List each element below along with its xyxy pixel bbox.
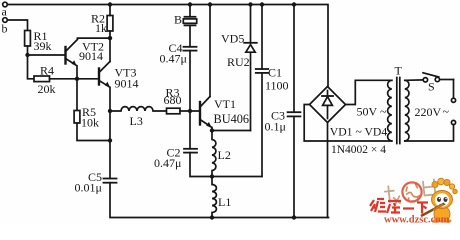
node VT1 emitter	[210, 128, 214, 132]
svg-text:0.01μ: 0.01μ	[75, 181, 102, 195]
capacitor C4	[184, 47, 197, 111]
wire R2 top	[109, 5, 111, 16]
svg-text:B: B	[174, 13, 182, 27]
node C1 top on bus	[260, 2, 264, 6]
svg-text:BU406: BU406	[214, 112, 250, 126]
wire bridge bottom to bus	[327, 123, 329, 218]
wire emitter node to VD5 line	[212, 130, 251, 132]
capacitor C5	[104, 179, 117, 183]
svg-text:RU2: RU2	[227, 55, 250, 69]
svg-text:1N4002 × 4: 1N4002 × 4	[331, 144, 386, 156]
terminal 220V top	[451, 98, 455, 102]
watermark magnifier circle	[402, 182, 421, 201]
wire bridge left vertex to secondary bottom	[304, 105, 392, 142]
watermark red brand text (drawn as shapes)	[370, 199, 428, 214]
node VT1 collector on bus	[208, 2, 212, 6]
svg-text:10k: 10k	[81, 116, 99, 130]
svg-text:R4: R4	[40, 64, 54, 78]
svg-text:50V ~: 50V ~	[357, 105, 387, 119]
svg-text:0.1μ: 0.1μ	[265, 120, 286, 134]
wire R5 bottom to C5 line	[77, 123, 110, 141]
switch S	[423, 73, 454, 82]
wire R4 to node Y	[50, 78, 78, 80]
svg-text:C1: C1	[268, 66, 282, 80]
node VT1 base/C4/C2	[188, 109, 192, 113]
inductor L1	[212, 177, 216, 218]
svg-text:VT1: VT1	[214, 97, 236, 111]
wire VD5 line vertical	[250, 52, 252, 130]
wire 220V bottom to primary	[405, 125, 454, 141]
wire bridge right vertex to secondary top	[346, 80, 392, 104]
resistor R1	[25, 31, 31, 47]
svg-text:L3: L3	[130, 114, 143, 128]
transformer core	[396, 78, 398, 144]
node L2/L1/C2/C1	[210, 174, 214, 178]
svg-text:L1: L1	[218, 195, 231, 209]
terminal b	[3, 18, 8, 23]
terminal a	[3, 2, 8, 7]
wire VT3 emitter down	[109, 87, 111, 178]
svg-text:b: b	[2, 22, 8, 36]
terminal 220V bottom	[451, 120, 455, 124]
svg-text:680: 680	[164, 93, 182, 107]
svg-text:9014: 9014	[115, 77, 139, 91]
capacitor C3	[288, 5, 301, 218]
svg-text:39k: 39k	[34, 39, 52, 53]
svg-text:www.dzsc.com: www.dzsc.com	[384, 215, 450, 225]
wire switch to 220V terminal	[453, 80, 455, 99]
node R2 top on bus	[108, 2, 112, 6]
capacitor C1	[256, 5, 268, 177]
node B top on bus	[188, 2, 192, 6]
svg-text:0.47μ: 0.47μ	[160, 52, 187, 66]
svg-text:a: a	[2, 5, 8, 19]
wire C1 bottom horizontal	[212, 176, 262, 178]
wire C5 to bottom bus	[110, 183, 329, 218]
watermark find-chip outline text (drawn as shapes)	[384, 179, 436, 205]
resistor R3	[167, 108, 181, 114]
resistor R5	[74, 111, 80, 124]
capacitor C2	[184, 111, 212, 177]
wire VT3 collector up	[109, 38, 111, 61]
wire R3 to VT1 base node	[180, 110, 200, 112]
svg-text:L2: L2	[218, 148, 231, 162]
svg-text:9014: 9014	[79, 49, 103, 63]
svg-text:S: S	[428, 80, 435, 94]
wire VT1 collector up to bus	[209, 5, 211, 97]
wire top bus	[7, 5, 328, 87]
bridge rectifier VD1-VD4	[310, 87, 346, 123]
node R5 wire	[108, 138, 112, 142]
wire node to VT2 base	[28, 54, 66, 56]
transistor VT3	[77, 62, 110, 88]
svg-text:~: ~	[443, 105, 450, 119]
svg-text:220V: 220V	[415, 105, 442, 119]
wire R2 bottom	[109, 31, 111, 38]
resistor R4	[34, 76, 50, 82]
inductor L2	[212, 131, 216, 178]
node L3	[108, 109, 112, 113]
crystal B	[183, 5, 196, 47]
transistor VT1	[200, 97, 212, 131]
svg-text:1k: 1k	[95, 21, 107, 35]
wire primary top to switch	[405, 79, 423, 81]
svg-text:T: T	[395, 64, 403, 78]
diode VD5 RU2	[244, 5, 257, 53]
node R1/R4/VT2 base	[25, 53, 29, 57]
wire R1 bottom to node	[27, 46, 29, 55]
svg-text:20k: 20k	[38, 82, 56, 96]
svg-text:1100: 1100	[265, 79, 289, 93]
wire VT2 collector to R2 bottom node	[77, 37, 110, 39]
node C3 top on bus	[292, 2, 296, 6]
transformer T primary winding	[405, 80, 409, 141]
node C3 bottom on bus	[292, 215, 296, 219]
watermark magnifier char inside circle	[405, 183, 421, 201]
wire node down to R4	[28, 55, 35, 79]
svg-text:VD1 ~ VD4: VD1 ~ VD4	[330, 126, 388, 139]
node R2 bottom	[108, 36, 112, 40]
resistor R2	[107, 16, 113, 32]
svg-text:VD5: VD5	[221, 32, 244, 46]
node L1 bottom on bus	[210, 215, 214, 219]
wire b to R1	[7, 20, 27, 31]
node VD5 top on bus	[248, 2, 252, 6]
watermark mascot	[421, 178, 457, 223]
transformer T secondary winding	[388, 80, 392, 141]
node Y (R4/VT2 emitter/VT3 base/R5)	[75, 77, 79, 81]
wire node Y down to R5	[76, 79, 78, 111]
transistor VT2	[66, 40, 78, 79]
svg-text:0.47μ: 0.47μ	[154, 156, 181, 170]
inductor L3	[110, 107, 167, 111]
